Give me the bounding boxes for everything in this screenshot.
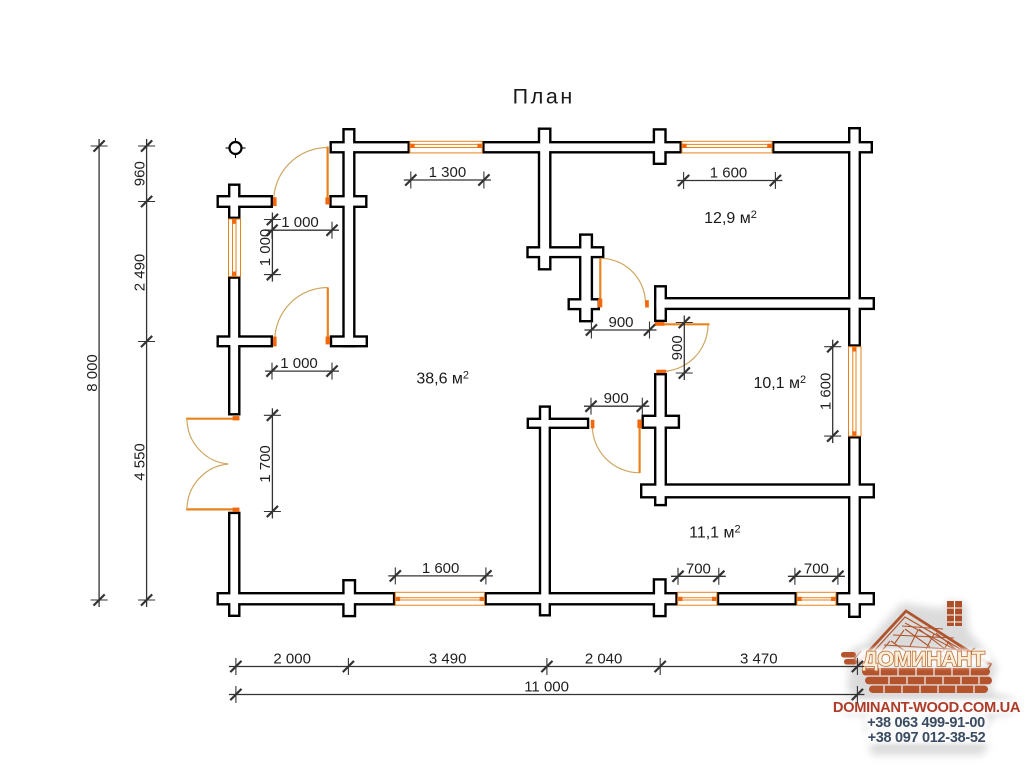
wall: bottom wall segment a (fill) (219, 594, 393, 603)
wall: bottom wall segment c (fill) (719, 594, 794, 603)
dimension 1 000 porch door (265, 222, 339, 239)
wall: left wall lower segment (fill) (230, 514, 238, 615)
wall: left wall upper segment (outline) (230, 186, 238, 217)
wall: interior wall V1 (fill) (345, 130, 353, 345)
svg-text:2 490: 2 490 (131, 254, 148, 292)
door D5 room 11.1 (900) (591, 420, 642, 473)
wall: H1 left cross (outline) (656, 288, 664, 320)
wall: V1 lower crossbar (fill) (332, 338, 365, 345)
wall: V1 upper crossbar (fill) (332, 197, 365, 205)
wall: bottom wall segment c (outline) (719, 594, 794, 603)
svg-text:900: 900 (669, 335, 686, 360)
wall: V1 lower crossbar (outline) (332, 338, 365, 345)
wall: porch top wall (fill) (219, 197, 271, 205)
dimension 900 bath door (584, 322, 656, 339)
dimension 1 600 right window (824, 340, 841, 443)
wall: left wall lower segment (outline) (230, 514, 238, 615)
dimension left chain (138, 139, 155, 607)
wall: bottom wall segment b (fill) (487, 594, 676, 603)
logo small logs left of house (841, 652, 857, 665)
svg-text:1 000: 1 000 (280, 355, 318, 372)
wall: wall H4 (outline) (642, 486, 872, 496)
wall: left wall middle segment (fill) (230, 279, 238, 413)
wall: bottom wall log tab left (fill) (345, 581, 354, 615)
svg-text:+38 097 012-38-52: +38 097 012-38-52 (868, 730, 986, 746)
window W2 top 1300 (410, 141, 482, 153)
dimension 900 room door (584, 398, 649, 415)
svg-text:1 600: 1 600 (422, 560, 460, 577)
door D6 double entrance (186, 416, 239, 512)
svg-text:DOMINANT-WOOD.COM.UA: DOMINANT-WOOD.COM.UA (833, 700, 1021, 716)
wall: top wall middle segment (fill) (485, 143, 680, 151)
dimension 1 000 tambour door (265, 363, 339, 380)
wall: wall B crossbar (fill) (570, 301, 598, 308)
wall: bottom wall log tab right (outline) (655, 581, 664, 615)
wall: wall H3 (outline) (529, 420, 587, 427)
wall: interior wall A upper (fill) (540, 130, 549, 268)
wall: bottom wall segment d (outline) (838, 594, 872, 603)
wall: interior wall B (fill) (581, 236, 590, 320)
wall: bottom wall segment a (outline) (219, 594, 393, 603)
dimension 700 right window (788, 568, 845, 585)
logo log wall rows (862, 668, 992, 693)
dimension 1 600 bottom window (388, 567, 493, 584)
wall: top wall right segment (outline) (774, 143, 870, 151)
wall: H1 left cross (fill) (656, 288, 664, 320)
wall: V1 upper crossbar (outline) (332, 197, 365, 205)
dimension 1 600 top window (677, 172, 783, 189)
dimension 1 000 vertical (264, 213, 281, 282)
svg-text:План: План (513, 85, 575, 109)
svg-text:1 600: 1 600 (818, 373, 835, 411)
wall: bottom wall log tab right (fill) (655, 581, 664, 615)
svg-text:3 470: 3 470 (740, 651, 778, 668)
wall: bath north bar (outline) (529, 249, 602, 256)
logo log wall joints (880, 668, 979, 693)
dimension bottom chain row (229, 658, 865, 675)
wall: interior wall A lower (fill) (541, 408, 548, 614)
wall: left wall middle segment (outline) (230, 279, 238, 413)
logo background glow blob (840, 601, 1017, 755)
wall: top wall middle segment (outline) (485, 143, 680, 151)
window W3 top 1600 (682, 141, 772, 153)
svg-text:900: 900 (604, 390, 629, 407)
svg-text:12,9 м2: 12,9 м2 (704, 209, 757, 227)
dimension 1 300 top window (404, 172, 491, 189)
door D1 porch (1000) (273, 147, 330, 207)
wall: top wall mid log tab (outline) (655, 131, 664, 163)
svg-text:8 000: 8 000 (84, 354, 101, 392)
wall: wall H3 (fill) (529, 420, 587, 427)
dimension 8 000 total (91, 139, 108, 607)
wall: lobby bottom wall (fill) (219, 338, 271, 345)
wall: interior wall V3 (fill) (656, 375, 664, 504)
svg-text:+38 063 499-91-00: +38 063 499-91-00 (867, 715, 985, 731)
svg-text:38,6 м2: 38,6 м2 (416, 370, 469, 388)
svg-text:700: 700 (804, 560, 829, 577)
porch column (226, 138, 246, 158)
wall: lobby bottom wall (outline) (219, 338, 271, 345)
svg-text:3 490: 3 490 (429, 651, 467, 668)
wall: interior wall A upper (outline) (540, 130, 549, 268)
dimension 900 wc door (676, 316, 693, 381)
wall: porch top wall (outline) (219, 197, 271, 205)
dimension 700 left window (671, 568, 726, 585)
svg-text:1 000: 1 000 (257, 229, 274, 267)
wall: wall H1 (outline) (656, 299, 872, 307)
wall: top wall left segment (fill) (332, 143, 408, 151)
svg-text:4 550: 4 550 (131, 443, 148, 481)
dimension 1 700 entrance (264, 408, 281, 518)
window W7 bottom 700 right (797, 592, 836, 605)
svg-text:ДОМИНАНТ: ДОМИНАНТ (863, 647, 985, 671)
wall: interior wall B (outline) (581, 236, 590, 320)
window W1 left wall (229, 219, 241, 276)
wall: right wall upper segment (outline) (850, 129, 858, 344)
svg-text:1 000: 1 000 (281, 214, 319, 231)
svg-text:11 000: 11 000 (524, 679, 569, 696)
wall: wall H1 (fill) (656, 299, 872, 307)
wall: top wall mid log tab (fill) (655, 131, 664, 163)
wall: wall H4 (fill) (642, 486, 872, 496)
logo house roof (852, 611, 991, 669)
door D3 bathroom (900) (598, 258, 649, 307)
svg-text:1 700: 1 700 (257, 445, 274, 483)
wall: V3 crossbar (outline) (644, 417, 678, 427)
window W6 bottom 700 left (678, 592, 717, 605)
wall: top wall right segment (fill) (774, 143, 870, 151)
wall: bottom wall log tab left (outline) (345, 581, 354, 615)
wall: interior wall V3 (outline) (656, 375, 664, 504)
wall: right wall upper segment (fill) (850, 129, 858, 344)
wall: bath north bar (fill) (529, 249, 602, 256)
wall: right wall lower segment (fill) (850, 439, 858, 616)
wall: V3 crossbar (fill) (644, 417, 678, 427)
svg-text:700: 700 (686, 560, 711, 577)
svg-text:2 000: 2 000 (273, 651, 311, 668)
wall: interior wall V1 (outline) (345, 130, 353, 345)
window W5 bottom 1600 (395, 592, 484, 605)
wall: right wall lower segment (outline) (850, 439, 858, 616)
wall: top wall left segment (outline) (332, 143, 408, 151)
wall: left wall upper segment (fill) (230, 186, 238, 217)
wall: bottom wall segment b (outline) (487, 594, 676, 603)
svg-text:10,1 м2: 10,1 м2 (753, 374, 806, 392)
door D4 wc (900) (655, 322, 710, 373)
wall: wall B crossbar (outline) (570, 301, 598, 308)
svg-text:1 300: 1 300 (429, 164, 467, 181)
svg-text:11,1 м2: 11,1 м2 (689, 524, 741, 542)
wall: bottom wall segment d (fill) (838, 594, 872, 603)
svg-text:960: 960 (131, 161, 148, 186)
svg-text:2 040: 2 040 (585, 651, 623, 668)
window W4 right wall 1600 (849, 347, 862, 436)
logo chimney (947, 601, 962, 626)
svg-text:900: 900 (608, 314, 633, 331)
door D2 tambour (1000) (273, 288, 330, 347)
logo text glow halos (838, 649, 1016, 744)
wall: interior wall A lower (outline) (541, 408, 548, 614)
svg-text:1 600: 1 600 (710, 165, 748, 182)
dimension 11 000 total (229, 686, 865, 703)
